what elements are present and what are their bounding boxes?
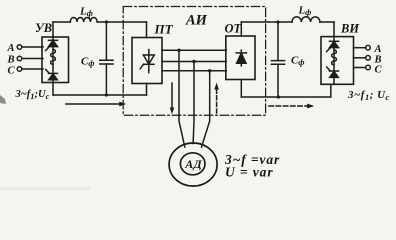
capacitor Cf right plates — [271, 61, 284, 65]
node junction cap left bottom — [105, 93, 108, 96]
thyristor block PT box — [132, 38, 162, 84]
svg-text:ОТ: ОТ — [225, 22, 243, 36]
UV thyristor bottom — [46, 69, 58, 79]
diode OT symbol — [236, 50, 246, 66]
wire bottom DC bus right — [241, 96, 330, 98]
wire A to UV — [22, 46, 43, 48]
scan smudge left edge — [0, 95, 6, 104]
svg-text:АИ: АИ — [185, 13, 208, 29]
node A right terminal — [366, 45, 371, 50]
svg-text:С: С — [8, 66, 16, 77]
VI thyristor bottom — [327, 67, 339, 77]
capacitor Cf left bottom lead — [105, 64, 107, 95]
inverter VI box — [321, 37, 354, 85]
wire VI top lead — [333, 22, 335, 37]
arrow power flow right (bottom left) — [66, 102, 126, 107]
wire motor phase 2 — [192, 62, 195, 144]
wire VI bottom lead — [330, 84, 332, 97]
wire VI out C — [354, 67, 366, 69]
svg-text:Lф: Lф — [79, 5, 93, 17]
scan smudge bottom edge — [0, 188, 90, 190]
wire OT bottom lead — [240, 80, 242, 98]
svg-text:В: В — [7, 55, 15, 66]
svg-text:U = var: U = var — [225, 165, 274, 180]
capacitor Cf right bottom lead — [277, 64, 279, 97]
UV thyristor top — [46, 40, 58, 50]
wire bottom DC bus left — [53, 94, 147, 96]
wire OT top lead — [240, 22, 242, 36]
inductor Lf right — [292, 17, 320, 22]
UV internal chain wire — [52, 37, 54, 83]
wire PT top lead — [146, 22, 148, 38]
thyristor PT symbol — [140, 50, 154, 73]
node C right terminal — [366, 65, 371, 70]
inverter AI dash-dot box — [123, 7, 265, 116]
svg-text:УВ: УВ — [35, 21, 52, 35]
node junction phase 3 — [208, 69, 211, 72]
wire VI out A — [354, 47, 366, 49]
svg-text:Lф: Lф — [298, 4, 312, 16]
wire motor phase 1 — [179, 50, 185, 147]
wire PT-OT link 3 — [162, 70, 226, 72]
wire bus to VI lead — [320, 21, 334, 23]
wire PT-OT link 2 — [162, 61, 226, 63]
node junction phase 1 — [177, 49, 180, 52]
node junction cap left top — [105, 20, 108, 23]
svg-text:3~f1;Uс: 3~f1;Uс — [15, 89, 50, 101]
svg-text:ПТ: ПТ — [154, 22, 174, 37]
arrow power flow right dashed (bottom right) — [269, 104, 314, 109]
svg-text:С: С — [375, 65, 383, 76]
svg-text:Сф: Сф — [81, 56, 94, 69]
UV inductance squiggle — [51, 50, 56, 65]
wire top DC bus left — [53, 21, 70, 23]
wire top DC bus right — [241, 21, 292, 23]
svg-text:А: А — [7, 43, 15, 54]
node junction phase 2 — [192, 60, 195, 63]
wire UV top lead to DC bus — [52, 22, 54, 37]
motor AD inner circle — [180, 153, 205, 175]
svg-text:ВИ: ВИ — [340, 22, 360, 36]
node B left terminal — [17, 56, 22, 61]
capacitor Cf left plates — [100, 60, 113, 64]
svg-text:А: А — [374, 44, 382, 55]
wire bus coil to PT lead — [97, 21, 146, 23]
wire PT bottom lead — [146, 84, 148, 96]
wire UV bottom lead — [52, 83, 54, 96]
wire C to UV — [22, 68, 43, 70]
wire B to UV — [22, 58, 43, 60]
wire motor phase 3 — [202, 71, 210, 147]
node junction cap right top — [276, 20, 279, 23]
capacitor Cf right top lead — [277, 22, 279, 61]
svg-text:АД: АД — [184, 157, 202, 171]
wire PT-OT link 1 — [162, 49, 226, 51]
VI internal chain wire — [333, 37, 335, 85]
node junction cap right bottom — [277, 95, 280, 98]
svg-text:Сф: Сф — [291, 55, 304, 68]
wire VI out B — [354, 57, 366, 59]
VI inductance squiggle — [332, 50, 337, 65]
capacitor Cf left top lead — [105, 22, 107, 60]
node C left terminal — [17, 67, 22, 72]
motor AD outer circle — [169, 143, 217, 186]
inductor Lf left — [70, 18, 97, 23]
arrow power flow up dashed (in AI) — [214, 83, 219, 113]
VI thyristor top — [327, 41, 339, 51]
arrow power flow down (in AI) — [170, 83, 175, 114]
rectifier UV box — [42, 37, 69, 83]
node A left terminal — [17, 45, 22, 50]
diode block OT box — [226, 36, 255, 80]
node B right terminal — [366, 56, 371, 61]
